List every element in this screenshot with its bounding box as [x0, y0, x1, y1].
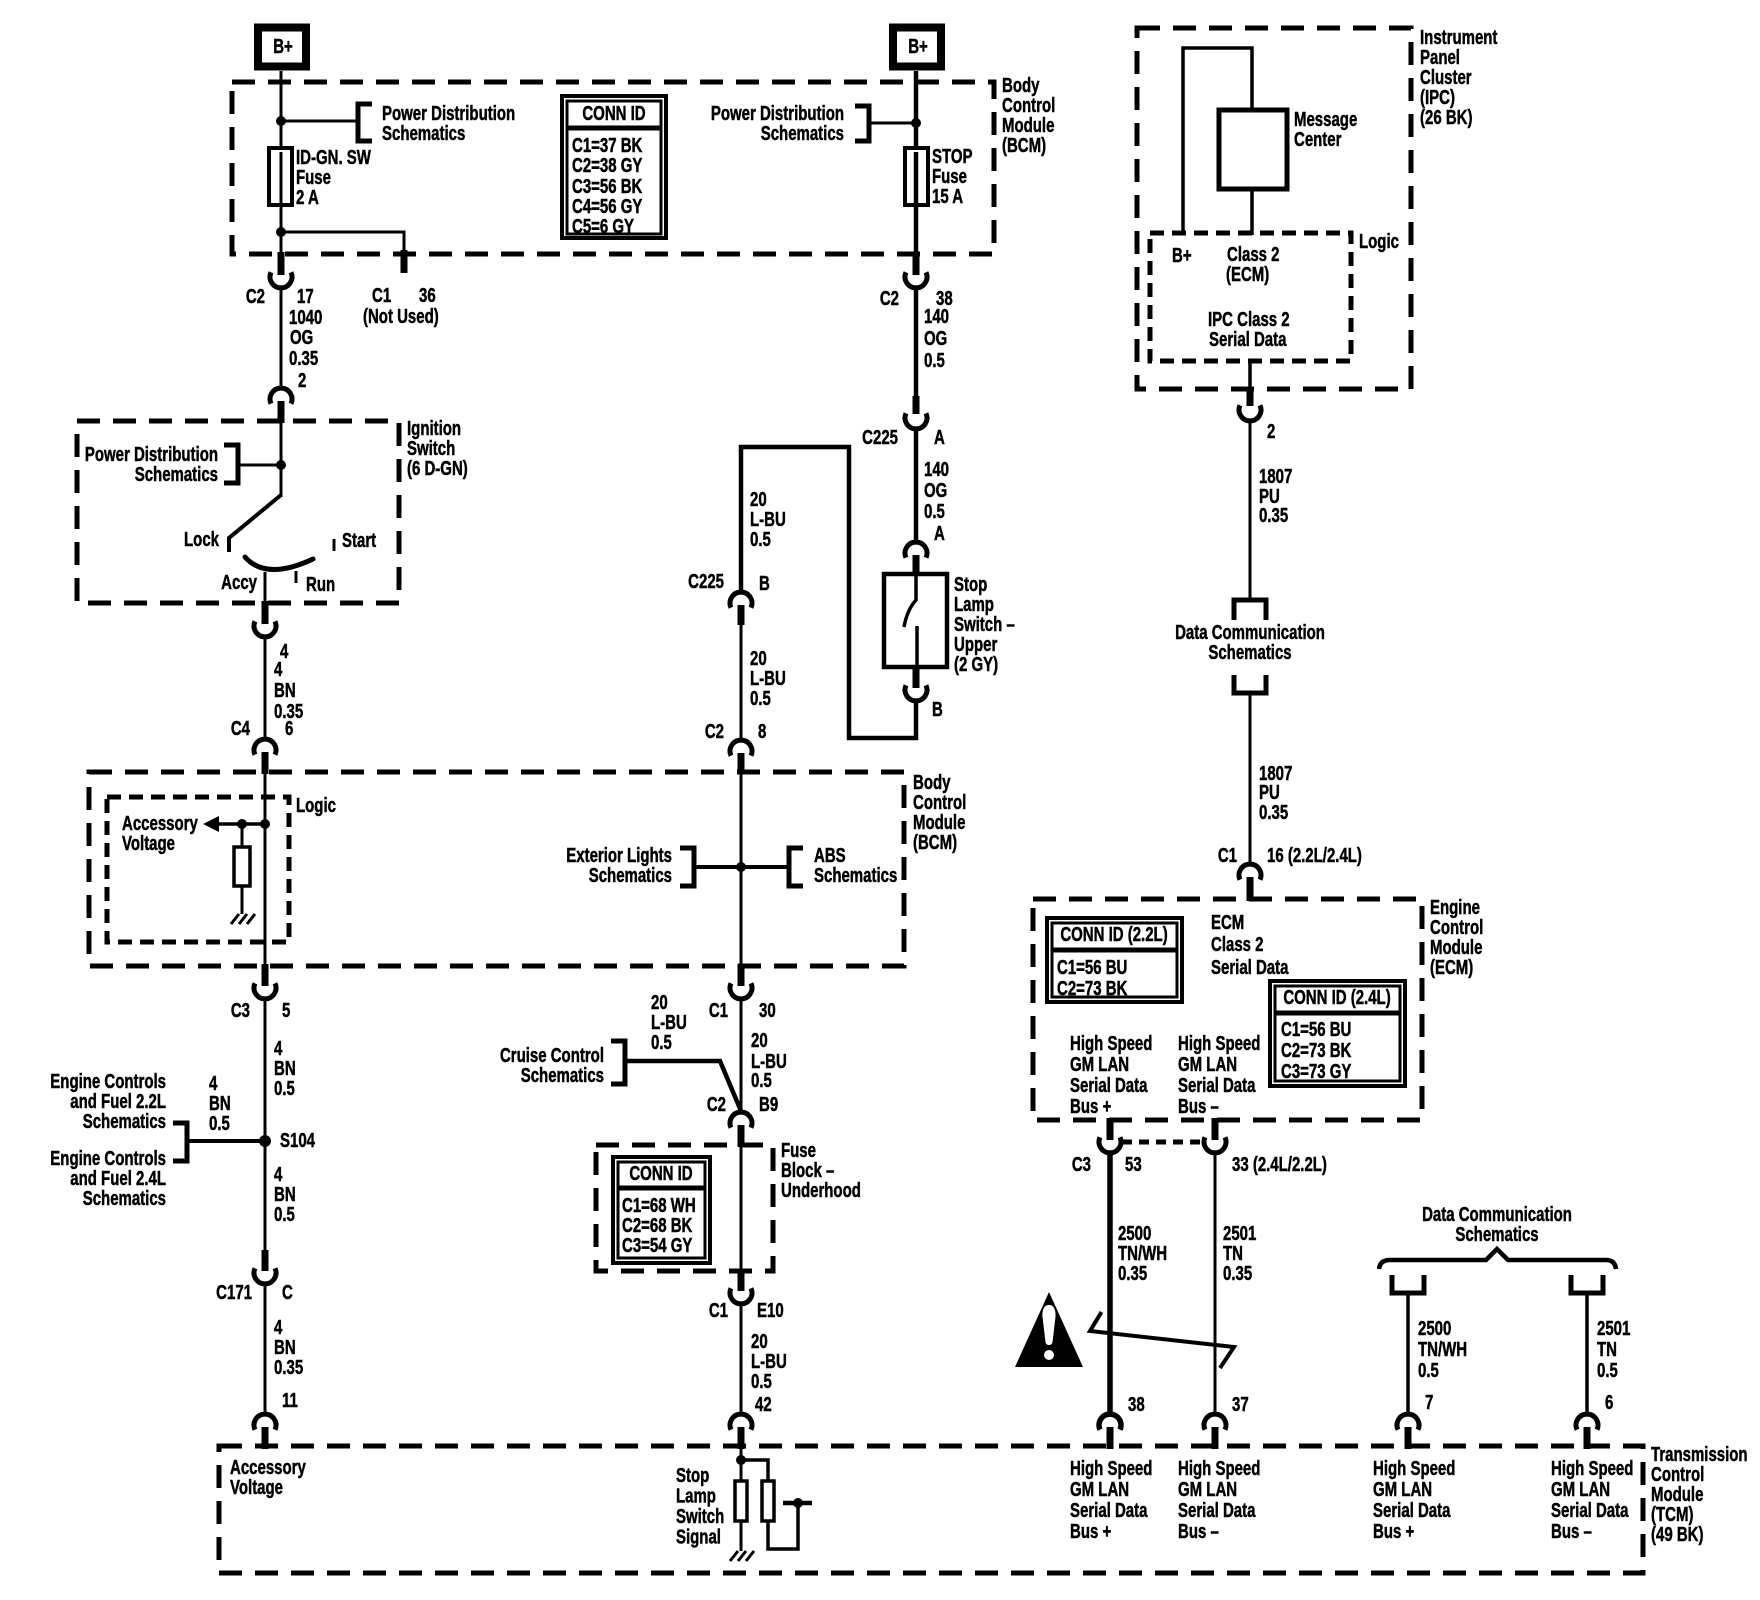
ignition switch blade (Lock position) — [229, 495, 281, 552]
brace data communication — [1379, 1249, 1616, 1269]
svg-text:6: 6 — [1605, 1391, 1613, 1414]
svg-text:2: 2 — [298, 369, 306, 392]
svg-text:C3=54 GY: C3=54 GY — [622, 1234, 693, 1257]
Stop Lamp Switch - Upper box — [884, 574, 947, 667]
Instrument Panel Cluster dashed box — [1137, 28, 1411, 389]
wire B+ to STOP fuse — [914, 71, 919, 150]
wire switch output — [264, 572, 267, 603]
wire 4 BN 0.5 upper — [264, 999, 267, 1141]
connector C1 cavity E10 (fuse block out) — [738, 1269, 745, 1291]
svg-text:Stop: Stop — [676, 1464, 709, 1487]
svg-text:36: 36 — [419, 284, 436, 307]
warning triangle — [1015, 1292, 1083, 1367]
wire into switch pivot — [280, 421, 283, 497]
svg-text:GM LAN: GM LAN — [1551, 1478, 1610, 1501]
ground (BCM logic) — [231, 914, 239, 924]
svg-text:GM LAN: GM LAN — [1070, 1478, 1129, 1501]
svg-text:Signal: Signal — [676, 1525, 721, 1548]
accessory voltage arrow — [218, 822, 265, 826]
svg-text:2 A: 2 A — [296, 186, 319, 209]
svg-text:High Speed: High Speed — [1070, 1457, 1152, 1480]
wire fuse to C2 pin 17 — [280, 232, 283, 254]
svg-text:C1: C1 — [1218, 844, 1237, 867]
svg-text:0.5: 0.5 — [1418, 1359, 1439, 1382]
svg-text:0.35: 0.35 — [1118, 1262, 1147, 1285]
svg-text:Serial Data: Serial Data — [1551, 1499, 1629, 1522]
connector TCM pin 7 — [1397, 1414, 1419, 1430]
svg-text:(ECM): (ECM) — [1430, 956, 1473, 979]
svg-text:B+: B+ — [273, 35, 293, 58]
connector ignition switch pin 2 — [270, 388, 292, 404]
svg-text:Bus +: Bus + — [1373, 1520, 1414, 1543]
node exterior lights / ABS tap — [736, 862, 746, 872]
svg-text:53: 53 — [1125, 1153, 1142, 1176]
svg-text:Logic: Logic — [1359, 230, 1399, 253]
connector C2 pin 38 (BCM) — [913, 252, 920, 275]
svg-text:42: 42 — [755, 1393, 772, 1416]
svg-text:2501: 2501 — [1597, 1317, 1630, 1340]
wire B+ feed inside IPC — [1183, 48, 1252, 233]
svg-text:C1: C1 — [372, 284, 391, 307]
svg-text:C3: C3 — [1072, 1153, 1091, 1176]
wire 4 BN 0.5 lower — [264, 1141, 267, 1252]
svg-text:Class 2: Class 2 — [1211, 933, 1264, 956]
wire through BCM logic — [264, 772, 267, 966]
node accessory voltage tap — [260, 819, 270, 829]
label Run with tick — [295, 571, 298, 583]
svg-text:OG: OG — [290, 326, 313, 349]
Logic dashed box (IPC) — [1150, 233, 1351, 361]
resistor left (TCM) — [735, 1481, 747, 1521]
wire 20 L-BU 0.5 to fuse block — [740, 999, 743, 1113]
svg-text:C1: C1 — [709, 999, 728, 1022]
wire 20 L-BU 0.5 to TCM 42 — [740, 1304, 743, 1413]
off-page reference to Data Communication Schematics — [1234, 600, 1266, 620]
svg-text:0.5: 0.5 — [274, 1203, 295, 1226]
wire 140 OG 0.5 upper — [914, 288, 919, 398]
svg-text:Serial Data: Serial Data — [1209, 328, 1287, 351]
connector C171 pin C — [262, 1250, 269, 1271]
svg-text:Serial Data: Serial Data — [1211, 956, 1289, 979]
BCM lower dashed box — [89, 772, 904, 966]
svg-text:Serial Data: Serial Data — [1070, 1074, 1148, 1097]
svg-text:5: 5 — [282, 999, 290, 1022]
svg-text:Bus –: Bus – — [1551, 1520, 1592, 1543]
svg-text:C2: C2 — [246, 285, 265, 308]
connector C225 cavity A — [913, 396, 920, 414]
wire cruise control branch — [625, 1061, 741, 1111]
svg-text:C1=56 BU: C1=56 BU — [1057, 956, 1127, 979]
svg-text:High Speed: High Speed — [1551, 1457, 1633, 1480]
svg-text:C5=6 GY: C5=6 GY — [572, 215, 634, 238]
wire 1040 OG 0.35 — [280, 288, 283, 387]
svg-text:C2=73 BK: C2=73 BK — [1281, 1039, 1352, 1062]
svg-text:Schematics: Schematics — [814, 864, 897, 887]
svg-text:0.5: 0.5 — [274, 1077, 295, 1100]
svg-text:0.35: 0.35 — [289, 347, 318, 370]
svg-text:Schematics: Schematics — [83, 1110, 166, 1133]
svg-text:Serial Data: Serial Data — [1373, 1499, 1451, 1522]
svg-text:4: 4 — [274, 658, 282, 681]
node resistor tap — [237, 819, 247, 829]
svg-text:37: 37 — [1232, 1393, 1249, 1416]
svg-text:11: 11 — [282, 1389, 298, 1412]
Transmission Control Module dashed box — [219, 1446, 1643, 1573]
wire bracket to switch common — [238, 464, 281, 467]
connector ignition output pin 4 — [262, 601, 269, 624]
wire to bracket (middle) — [869, 122, 916, 125]
wire to bracket — [281, 120, 358, 123]
resistor right branch (TCM) — [741, 1460, 768, 1481]
svg-text:Run: Run — [306, 573, 335, 596]
svg-text:140: 140 — [924, 305, 949, 328]
connector C1 pin 30 (BCM out) — [738, 964, 745, 986]
svg-text:Lamp: Lamp — [676, 1484, 716, 1507]
node junction power distribution (middle) — [911, 118, 921, 128]
off-page stub 2500 (TCM side) — [1392, 1275, 1424, 1293]
label Start with tick — [333, 539, 336, 551]
node junction to power distribution bracket — [276, 116, 286, 126]
svg-text:B+: B+ — [1172, 244, 1192, 267]
svg-text:0.5: 0.5 — [209, 1112, 230, 1135]
svg-text:(6 D-GN): (6 D-GN) — [407, 457, 468, 480]
CONN ID table (fuse block) — [613, 1157, 710, 1263]
svg-text:0.5: 0.5 — [651, 1031, 672, 1054]
svg-text:High Speed: High Speed — [1178, 1457, 1260, 1480]
wire 2500 TN/WH 0.35 (bus+) — [1107, 1153, 1113, 1413]
connector C2 pin 17 (BCM) — [278, 252, 285, 275]
svg-text:GM LAN: GM LAN — [1178, 1053, 1237, 1076]
ignition switch rotary arc — [245, 557, 313, 570]
bracket engine controls schematics — [173, 1123, 187, 1161]
wire through fuse block — [740, 1145, 743, 1271]
svg-text:E10: E10 — [757, 1299, 784, 1322]
bracket power distribution (ignition) — [224, 445, 238, 483]
bracket Power Distribution Schematics (BCM left) — [358, 104, 372, 141]
svg-text:GM LAN: GM LAN — [1070, 1053, 1129, 1076]
svg-text:0.5: 0.5 — [750, 687, 771, 710]
svg-text:B9: B9 — [759, 1093, 778, 1116]
svg-text:Center: Center — [1294, 128, 1342, 151]
svg-text:C2: C2 — [705, 720, 724, 743]
connector C3 pin 5 (BCM out) — [262, 964, 269, 986]
wire B+ to fuse (left) — [280, 71, 283, 150]
connector TCM pin 11 — [254, 1414, 276, 1430]
svg-text:CONN ID: CONN ID — [629, 1162, 692, 1185]
svg-text:15 A: 15 A — [932, 185, 963, 208]
svg-text:Bus +: Bus + — [1070, 1520, 1111, 1543]
svg-text:A: A — [934, 426, 945, 449]
wire 1807 PU 0.35 lower — [1249, 693, 1252, 864]
connector pin 33 (ECM out bus-) — [1212, 1118, 1219, 1140]
svg-text:33 (2.4L/2.2L): 33 (2.4L/2.2L) — [1232, 1153, 1327, 1176]
power terminal B+ (middle) — [893, 28, 941, 67]
wire 4 BN 0.35 to TCM — [264, 1284, 267, 1413]
CONN ID (2.4L) table — [1270, 981, 1405, 1086]
svg-text:17: 17 — [297, 285, 314, 308]
svg-text:(2 GY): (2 GY) — [954, 653, 998, 676]
svg-text:Schematics: Schematics — [83, 1187, 166, 1210]
svg-text:C225: C225 — [688, 570, 724, 593]
bracket ABS Schematics — [789, 848, 803, 886]
connector stop lamp switch pin A — [905, 542, 927, 558]
svg-text:OG: OG — [924, 479, 947, 502]
wire 20 L-BU 0.5 to C2 8 — [740, 625, 743, 739]
svg-text:Schematics: Schematics — [382, 122, 465, 145]
svg-text:BN: BN — [274, 679, 296, 702]
CONN ID (2.2L) table — [1047, 918, 1182, 1002]
svg-text:C2: C2 — [880, 287, 899, 310]
svg-text:8: 8 — [758, 720, 766, 743]
wire message center to logic — [1250, 189, 1254, 235]
svg-text:(BCM): (BCM) — [913, 831, 957, 854]
svg-text:(49 BK): (49 BK) — [1651, 1523, 1703, 1546]
svg-text:38: 38 — [1128, 1393, 1145, 1416]
svg-text:High Speed: High Speed — [1070, 1032, 1152, 1055]
svg-text:Voltage: Voltage — [122, 832, 175, 855]
svg-text:20: 20 — [751, 1029, 768, 1052]
svg-text:0.35: 0.35 — [1259, 801, 1288, 824]
bracket Power Distribution Schematics (middle) — [855, 106, 869, 141]
splice S104 — [259, 1135, 271, 1147]
svg-text:0.35: 0.35 — [274, 1356, 303, 1379]
svg-text:2: 2 — [1267, 420, 1275, 443]
wire 1807 PU 0.35 upper — [1249, 421, 1252, 600]
svg-text:C4: C4 — [231, 717, 250, 740]
fuse STOP 15A — [905, 148, 928, 205]
svg-text:Bus –: Bus – — [1178, 1095, 1219, 1118]
svg-text:0.5: 0.5 — [1597, 1359, 1618, 1382]
svg-text:Schematics: Schematics — [135, 463, 218, 486]
bracket cruise control schematics — [611, 1041, 625, 1084]
svg-text:30: 30 — [759, 999, 776, 1022]
svg-text:High Speed: High Speed — [1178, 1032, 1260, 1055]
fuse ID-GN. SW Fuse 2A — [269, 148, 292, 205]
svg-text:Bus +: Bus + — [1070, 1095, 1111, 1118]
svg-text:B+: B+ — [908, 35, 928, 58]
svg-text:Schematics: Schematics — [761, 122, 844, 145]
connector C3 pin 53 (ECM out bus+) — [1107, 1118, 1114, 1140]
svg-text:Voltage: Voltage — [230, 1476, 283, 1499]
svg-text:16 (2.2L/2.4L): 16 (2.2L/2.4L) — [1267, 844, 1362, 867]
twisted pair crossing mark — [1090, 1312, 1234, 1368]
sense tap bar with node — [783, 1501, 812, 1506]
svg-text:0.35: 0.35 — [1223, 1262, 1252, 1285]
svg-text:C2: C2 — [707, 1093, 726, 1116]
svg-text:TN/WH: TN/WH — [1418, 1338, 1467, 1361]
svg-text:Schematics: Schematics — [589, 864, 672, 887]
wire to not-used pin C1 36 — [281, 232, 404, 254]
svg-text:Accy: Accy — [221, 571, 257, 594]
Message Center box — [1219, 110, 1287, 189]
svg-text:(26 BK): (26 BK) — [1420, 106, 1472, 129]
svg-text:0.5: 0.5 — [751, 1370, 772, 1393]
svg-text:ECM: ECM — [1211, 911, 1244, 934]
svg-text:C1=56 BU: C1=56 BU — [1281, 1018, 1351, 1041]
wire logic to IPC pin 2 — [1248, 361, 1252, 389]
wire branch to S104 — [187, 1139, 265, 1143]
svg-text:High Speed: High Speed — [1373, 1457, 1455, 1480]
wire 2501 TN 0.5 — [1585, 1293, 1589, 1413]
svg-text:0.5: 0.5 — [924, 349, 945, 372]
svg-text:C3: C3 — [231, 999, 250, 1022]
svg-text:CONN ID: CONN ID — [582, 102, 645, 125]
svg-text:Start: Start — [342, 529, 376, 552]
svg-text:(ECM): (ECM) — [1226, 263, 1269, 286]
svg-text:(BCM): (BCM) — [1002, 134, 1046, 157]
svg-text:7: 7 — [1425, 1391, 1433, 1414]
connector stop lamp switch pin B — [913, 665, 920, 688]
svg-text:TN: TN — [1597, 1338, 1617, 1361]
wire 2500 TN/WH 0.5 — [1406, 1293, 1410, 1413]
svg-text:Lock: Lock — [184, 528, 219, 551]
svg-text:Underhood: Underhood — [781, 1179, 861, 1202]
svg-text:C2=38 GY: C2=38 GY — [572, 154, 643, 177]
BCM top dashed box (Body Control Module) — [232, 82, 994, 254]
svg-text:B: B — [759, 572, 770, 595]
svg-text:GM LAN: GM LAN — [1178, 1478, 1237, 1501]
svg-text:OG: OG — [924, 327, 947, 350]
CONN ID table (BCM) — [562, 96, 666, 238]
svg-text:Schematics: Schematics — [1208, 641, 1291, 664]
svg-text:GM LAN: GM LAN — [1373, 1478, 1432, 1501]
wire 4 BN 0.35 to C4 — [264, 637, 267, 738]
svg-text:2500: 2500 — [1418, 1317, 1451, 1340]
off-page stub 2501 (TCM side) — [1571, 1275, 1603, 1293]
power terminal B+ (left) — [258, 28, 306, 67]
wire 2501 TN 0.35 (bus-) — [1214, 1153, 1217, 1413]
connector TCM pin 38 — [1099, 1414, 1121, 1430]
TCM stop lamp input network — [740, 1446, 743, 1481]
svg-text:C: C — [282, 1281, 293, 1304]
connector IPC pin 2 — [1247, 387, 1254, 406]
svg-text:0.5: 0.5 — [750, 528, 771, 551]
ground (TCM) — [730, 1551, 738, 1561]
svg-text:CONN ID (2.2L): CONN ID (2.2L) — [1060, 923, 1167, 946]
node ignition switch common — [276, 460, 286, 470]
svg-text:Serial Data: Serial Data — [1070, 1499, 1148, 1522]
node junction below fuse — [276, 227, 286, 237]
svg-text:Serial Data: Serial Data — [1178, 1074, 1256, 1097]
bracket Exterior Lights Schematics — [680, 848, 694, 886]
Ignition Switch dashed box — [77, 421, 399, 603]
svg-text:Serial Data: Serial Data — [1178, 1499, 1256, 1522]
wire 140 OG 0.5 lower — [914, 429, 919, 543]
svg-text:CONN ID (2.4L): CONN ID (2.4L) — [1283, 986, 1390, 1009]
svg-text:6: 6 — [285, 717, 293, 740]
svg-text:0.5: 0.5 — [751, 1069, 772, 1092]
svg-text:Bus –: Bus – — [1178, 1520, 1219, 1543]
svg-text:C2=73 BK: C2=73 BK — [1057, 977, 1128, 1000]
svg-text:Schematics: Schematics — [1455, 1223, 1538, 1246]
wire loop from stop lamp switch to C225 B — [741, 447, 916, 738]
connector TCM pin 42 — [730, 1414, 752, 1430]
wire through BCM lower (stop lamp) — [740, 772, 743, 966]
svg-text:C225: C225 — [862, 426, 898, 449]
svg-text:Schematics: Schematics — [521, 1064, 604, 1087]
dotted pairing between bus connectors — [1122, 1140, 1203, 1145]
pull-down resistor (BCM logic) — [241, 824, 244, 847]
svg-text:Logic: Logic — [296, 794, 336, 817]
Logic inner dashed box (BCM) — [107, 797, 289, 942]
svg-text:B: B — [932, 698, 943, 721]
svg-text:140: 140 — [924, 458, 949, 481]
svg-text:(Not Used): (Not Used) — [363, 305, 439, 328]
svg-text:C3=73 GY: C3=73 GY — [1281, 1060, 1352, 1083]
connector TCM pin 37 — [1204, 1414, 1226, 1430]
svg-text:Switch: Switch — [676, 1505, 724, 1528]
svg-text:C171: C171 — [216, 1281, 252, 1304]
svg-text:S104: S104 — [280, 1129, 315, 1152]
svg-text:A: A — [934, 522, 945, 545]
connector TCM pin 6 — [1576, 1414, 1598, 1430]
stop lamp switch internal contacts — [914, 574, 918, 601]
svg-text:0.35: 0.35 — [1259, 504, 1288, 527]
Fuse Block - Underhood dashed box — [596, 1145, 773, 1271]
svg-text:C1: C1 — [709, 1299, 728, 1322]
svg-text:0.5: 0.5 — [924, 500, 945, 523]
Engine Control Module dashed box — [1033, 899, 1422, 1120]
